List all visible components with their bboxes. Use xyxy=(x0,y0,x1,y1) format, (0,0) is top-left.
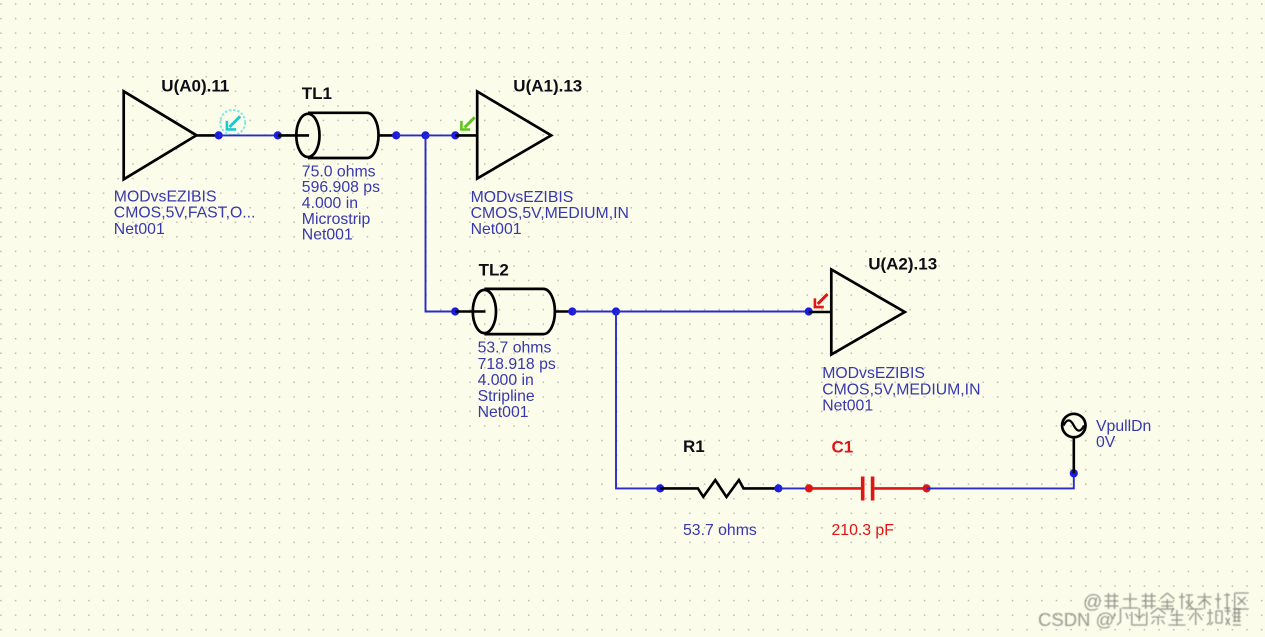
svg-text:53.7 ohms: 53.7 ohms xyxy=(478,340,552,357)
node dot before TL1 xyxy=(274,131,282,139)
C1 value label xyxy=(832,522,895,539)
node dot right of C1 (red) xyxy=(923,484,931,492)
svg-text:MODvsEZIBIS: MODvsEZIBIS xyxy=(114,188,217,205)
svg-text:Net001: Net001 xyxy=(302,227,353,244)
wire to VpullDn (blue) xyxy=(927,473,1074,488)
wire TL2 left pin (black) xyxy=(455,310,485,313)
svg-text:TL2: TL2 xyxy=(479,260,509,279)
svg-text:Net001: Net001 xyxy=(478,404,529,421)
receiver U(A1).13 buffer triangle xyxy=(477,92,551,179)
wire TL1 right pin (black) xyxy=(379,134,397,137)
receiver U(A2).13 buffer triangle xyxy=(831,270,905,355)
svg-text:MODvsEZIBIS: MODvsEZIBIS xyxy=(471,189,574,206)
resistor R1 xyxy=(660,480,778,497)
watermark line 1: @稀土掘金技术社区 (drawn glyphs) xyxy=(1083,592,1249,613)
svg-text:596.908 ps: 596.908 ps xyxy=(302,179,380,196)
label U(A1).13 xyxy=(513,77,582,96)
wire TL1 left pin (black) xyxy=(278,134,309,137)
wire driver output (black) xyxy=(197,134,220,137)
label TL1 xyxy=(302,84,332,103)
node dot left of C1 (red) xyxy=(805,484,813,492)
svg-text:CMOS,5V,MEDIUM,IN: CMOS,5V,MEDIUM,IN xyxy=(471,205,629,222)
svg-text:Microstrip: Microstrip xyxy=(302,211,371,228)
svg-text:U(A1).13: U(A1).13 xyxy=(513,77,582,96)
label R1 xyxy=(683,437,705,456)
svg-text:CMOS,5V,FAST,O...: CMOS,5V,FAST,O... xyxy=(114,205,256,222)
node dot at driver output xyxy=(215,131,223,139)
node dot at TL2 input xyxy=(451,307,459,315)
voltage source VpullDn xyxy=(1062,414,1085,437)
svg-text:210.3 pF: 210.3 pF xyxy=(832,522,895,539)
svg-text:CMOS,5V,MEDIUM,IN: CMOS,5V,MEDIUM,IN xyxy=(822,381,980,398)
wire (blue) xyxy=(778,487,809,489)
wire VpullDn pin (black) xyxy=(1073,437,1076,474)
svg-text:Stripline: Stripline xyxy=(478,388,535,405)
wire TL2 right pin (black) xyxy=(555,310,572,313)
wire into U(A1) (black) xyxy=(455,134,477,137)
transmission line TL2 xyxy=(473,289,555,334)
label U(A2).13 xyxy=(868,255,937,274)
svg-text:53.7 ohms: 53.7 ohms xyxy=(683,522,757,539)
svg-text:75.0 ohms: 75.0 ohms xyxy=(302,163,376,180)
node dot below VpullDn xyxy=(1070,469,1078,477)
svg-text:VpullDn: VpullDn xyxy=(1096,418,1151,435)
svg-text:TL1: TL1 xyxy=(302,84,332,103)
TL2 value labels xyxy=(478,340,556,421)
wire (blue) xyxy=(426,134,456,136)
U(A2) value labels xyxy=(822,365,980,414)
probe marker (cyan circle with arrow) xyxy=(220,110,245,135)
node dot left of R1 xyxy=(656,484,664,492)
R1 value label xyxy=(683,522,757,539)
junction node to R1 branch xyxy=(612,307,620,315)
watermark line 2: CSDN @小幽余生不加糖 (drawn glyphs) xyxy=(1038,608,1241,630)
svg-text:718.918 ps: 718.918 ps xyxy=(478,356,556,373)
node dot after TL1 xyxy=(392,131,400,139)
svg-text:Net001: Net001 xyxy=(114,221,165,238)
svg-text:Net001: Net001 xyxy=(471,221,522,238)
svg-text:CSDN @: CSDN @ xyxy=(1038,609,1114,630)
wire (blue) xyxy=(396,134,425,136)
transmission line TL1 xyxy=(296,113,378,158)
svg-text:C1: C1 xyxy=(832,438,854,457)
green input arrow at U(A1) xyxy=(461,117,474,129)
node dot at U(A2) input xyxy=(805,307,813,315)
wire vertical branch down (blue) xyxy=(426,135,456,311)
label TL2 xyxy=(479,260,509,279)
label VpullDn xyxy=(1096,418,1151,451)
svg-text:Net001: Net001 xyxy=(822,397,873,414)
wire (blue) xyxy=(572,311,616,313)
svg-text:4.000 in: 4.000 in xyxy=(302,195,358,212)
red input arrow at U(A2) xyxy=(815,294,828,307)
node dot right of R1 xyxy=(774,484,782,492)
label U(A0).11 xyxy=(161,77,229,96)
U(A1) value labels xyxy=(471,189,629,238)
svg-text:0V: 0V xyxy=(1096,434,1116,451)
svg-text:MODvsEZIBIS: MODvsEZIBIS xyxy=(822,365,925,382)
wire node to node (blue) xyxy=(219,134,278,136)
wire (blue) xyxy=(616,311,809,313)
node dot after TL2 xyxy=(568,307,576,315)
wire into U(A2) (black) xyxy=(809,311,832,314)
svg-text:R1: R1 xyxy=(683,437,705,456)
driver U(A0).11 buffer triangle xyxy=(124,91,197,179)
TL1 value labels xyxy=(302,163,380,243)
label C1 xyxy=(832,438,854,457)
svg-text:U(A2).13: U(A2).13 xyxy=(868,255,937,274)
capacitor C1 (red) xyxy=(809,477,927,501)
svg-text:4.000 in: 4.000 in xyxy=(478,372,534,389)
svg-text:U(A0).11: U(A0).11 xyxy=(161,77,229,96)
wire vertical down to R1 rail (blue) xyxy=(616,312,660,489)
node dot at U(A1) input xyxy=(451,131,459,139)
U(A0) value labels xyxy=(114,188,256,238)
junction node at branch xyxy=(421,131,429,139)
